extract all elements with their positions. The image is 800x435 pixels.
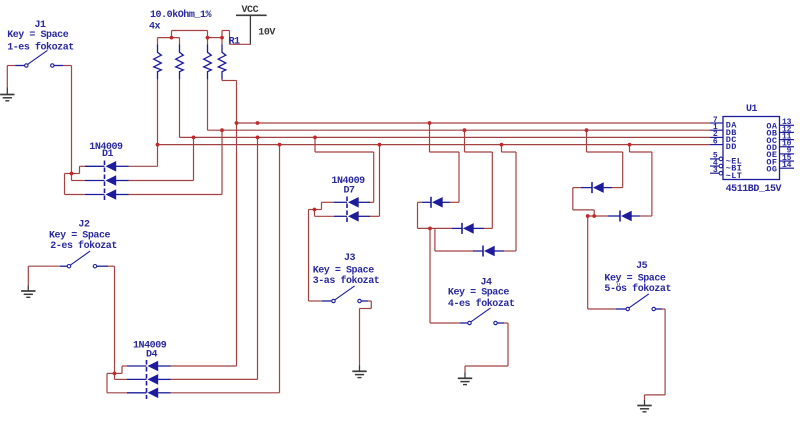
svg-text:U1: U1 bbox=[746, 104, 758, 115]
svg-text:~LT: ~LT bbox=[726, 171, 742, 181]
svg-text:D7: D7 bbox=[344, 186, 356, 197]
svg-text:Key = Space: Key = Space bbox=[448, 287, 510, 298]
svg-text:5-ös fokozat: 5-ös fokozat bbox=[604, 283, 671, 295]
svg-text:4x: 4x bbox=[149, 21, 161, 32]
svg-text:3: 3 bbox=[713, 166, 718, 175]
svg-text:Key = Space: Key = Space bbox=[7, 30, 69, 41]
svg-text:D4: D4 bbox=[146, 349, 158, 360]
svg-text:3-as fokozat: 3-as fokozat bbox=[313, 275, 380, 287]
svg-text:10V: 10V bbox=[258, 28, 275, 39]
svg-text:10.0kOhm_1%: 10.0kOhm_1% bbox=[150, 9, 212, 21]
svg-text:Key = Space: Key = Space bbox=[604, 273, 666, 284]
svg-text:J3: J3 bbox=[344, 253, 356, 264]
svg-text:D1: D1 bbox=[102, 149, 114, 160]
svg-text:1-es fokozat: 1-es fokozat bbox=[7, 42, 74, 54]
svg-text:14: 14 bbox=[782, 161, 792, 170]
svg-text:2-es fokozat: 2-es fokozat bbox=[50, 240, 117, 252]
svg-text:DD: DD bbox=[726, 142, 737, 152]
svg-text:4-es fokozat: 4-es fokozat bbox=[448, 298, 515, 310]
svg-text:6: 6 bbox=[713, 137, 718, 146]
svg-text:R1: R1 bbox=[229, 36, 241, 47]
svg-text:Key = Space: Key = Space bbox=[49, 230, 111, 241]
svg-text:J5: J5 bbox=[636, 261, 648, 272]
svg-text:OG: OG bbox=[766, 164, 777, 174]
svg-text:Key = Space: Key = Space bbox=[313, 265, 375, 276]
svg-text:VCC: VCC bbox=[242, 5, 259, 16]
svg-text:4511BD_15V: 4511BD_15V bbox=[726, 184, 782, 195]
svg-text:J2: J2 bbox=[78, 219, 90, 230]
